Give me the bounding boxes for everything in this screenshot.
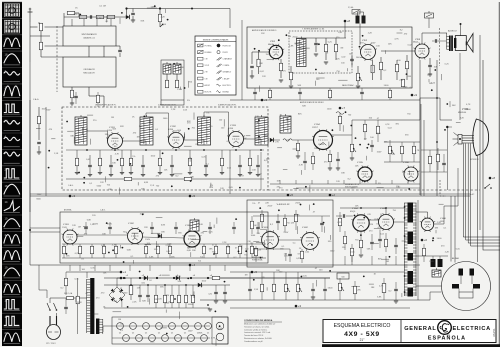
svg-text:6DQ6: 6DQ6 [350, 211, 356, 213]
svg-text:2,2K: 2,2K [171, 109, 176, 111]
svg-text:82K: 82K [209, 187, 213, 189]
svg-text:5%: 5% [81, 259, 84, 261]
sound box hanging capacitor C706 [298, 92, 302, 93]
svg-text:6AQ5: 6AQ5 [413, 41, 419, 44]
capacitor C507 [311, 289, 315, 290]
supply diode D502 [198, 283, 202, 287]
svg-text:18K: 18K [161, 232, 165, 234]
capacitor C703 [350, 59, 354, 60]
IF bypass ground G230 [88, 175, 92, 177]
wire det to amp [292, 139, 313, 141]
svg-text:1M: 1M [137, 137, 140, 139]
IF bias ground G220 [75, 173, 79, 175]
svg-text:V 204: V 204 [314, 124, 320, 126]
svg-text:Tension de linea 220 V.: Tension de linea 220 V. [244, 335, 264, 337]
waveform frame 11 [2, 166, 22, 180]
resistor R5 [39, 23, 42, 31]
resistor R702 [334, 44, 337, 52]
resistor R11 [175, 80, 178, 88]
svg-text:150V: 150V [107, 224, 112, 226]
wire video to CRT 2 [420, 97, 440, 99]
svg-text:A.A.T.: A.A.T. [470, 193, 475, 196]
supply rail B2 [104, 277, 330, 279]
wire antenna to tuner [29, 22, 31, 62]
svg-text:V 403 ECL 82: V 403 ECL 82 [277, 204, 291, 206]
wire volume to grid [381, 50, 415, 52]
svg-text:5%: 5% [206, 113, 209, 115]
IF decoupling resistor R232 [124, 177, 132, 180]
svg-text:56K: 56K [177, 130, 181, 132]
coupling capacitor C708 [435, 39, 436, 43]
video detector can T205 [280, 114, 291, 133]
svg-text:C.A.G.: C.A.G. [33, 98, 39, 101]
svg-text:150V: 150V [145, 239, 150, 241]
svg-text:4,7K: 4,7K [73, 14, 78, 16]
svg-text:1 W: 1 W [205, 59, 208, 61]
svg-text:1M: 1M [103, 6, 106, 8]
node +3 bus [261, 99, 264, 102]
svg-text:1/2 W: 1/2 W [205, 65, 210, 67]
waveform frame 6 [2, 84, 22, 98]
IF bias ground G222 [120, 173, 124, 175]
svg-text:4,7K: 4,7K [115, 153, 120, 155]
waveform frame 1 [2, 2, 22, 17]
video cathode resistor R248 [328, 154, 331, 162]
svg-text:18K: 18K [250, 243, 254, 245]
svg-text:CONDICIONES DE MEDIDA: CONDICIONES DE MEDIDA [244, 319, 273, 322]
waveform photo film strip [2, 2, 22, 346]
bridge diode [119, 289, 123, 293]
svg-text:18K: 18K [341, 173, 345, 175]
resistor R705 [289, 72, 292, 80]
ground C4 [131, 20, 135, 22]
supply node +5 [190, 277, 192, 279]
waveform frame 17 [2, 264, 22, 278]
sync resistor R311 [78, 246, 81, 254]
node +2 horiz [329, 194, 332, 197]
wire sound tube input [252, 51, 269, 53]
svg-text:1,5K: 1,5K [376, 46, 381, 48]
wire horiz internals [278, 239, 302, 241]
video amp tube V204 [312, 129, 334, 151]
waveform frame 8 [2, 117, 22, 131]
capacitor C401 [276, 221, 280, 222]
IF bias resistor R225 [188, 158, 191, 166]
cathode resistor R411 [359, 240, 362, 248]
IF bias resistor R223 [129, 158, 132, 166]
supply resistor R514 [184, 295, 187, 303]
wire top bias row [64, 16, 126, 18]
resistor R710 [405, 61, 408, 69]
coupling cap C406 [343, 214, 344, 218]
supply resistor R512 [170, 295, 173, 303]
svg-text:PUNTO: PUNTO [223, 52, 229, 54]
svg-text:10K: 10K [388, 43, 392, 45]
sound section box [247, 27, 412, 88]
heater circle F6 [182, 323, 189, 330]
sound IF amp tube V701 [268, 44, 284, 60]
tuner coil pair T2 [173, 62, 181, 74]
resistor R406 [300, 251, 303, 259]
svg-text:56K: 56K [452, 105, 456, 107]
svg-text:V 406: V 406 [440, 218, 446, 220]
svg-text:10K: 10K [434, 67, 438, 69]
heater inner box [212, 317, 228, 344]
svg-text:56K: 56K [171, 257, 175, 259]
svg-text:3S151: 3S151 [492, 328, 496, 337]
resistor R247 [412, 146, 415, 154]
video cathode capacitor C241 [336, 159, 340, 160]
svg-text:150V: 150V [188, 331, 193, 333]
svg-text:ESQUEMA ELECTRICO: ESQUEMA ELECTRICO [334, 323, 391, 329]
wire top feed extend [160, 8, 230, 10]
svg-text:SINTONIZADOR: SINTONIZADOR [81, 33, 97, 36]
bottom bus 1 [200, 299, 430, 301]
width box 500 [337, 273, 349, 279]
svg-text:10K: 10K [356, 57, 360, 59]
mains switch [47, 303, 57, 311]
node +1 under sync [120, 277, 123, 280]
svg-text:T. INTERCARRIER 5,5 Mc: T. INTERCARRIER 5,5 Mc [302, 28, 324, 31]
wire V302-V303 [143, 237, 185, 238]
svg-text:18K: 18K [264, 135, 268, 137]
svg-text:1M: 1M [139, 126, 142, 128]
svg-text:56K: 56K [178, 281, 182, 283]
svg-text:ANTENA: ANTENA [64, 209, 72, 212]
wire IF chain 3 [145, 113, 147, 117]
svg-text:1M: 1M [118, 319, 121, 321]
wire supply rail to right [230, 277, 330, 279]
sound box hanging resistor R713 [328, 90, 331, 98]
svg-text:2,2K: 2,2K [437, 222, 442, 224]
supply resistor R515 [191, 295, 194, 303]
wire brightness rail [384, 141, 420, 143]
diode D301 [158, 234, 162, 238]
svg-text:250V: 250V [267, 205, 272, 207]
IF bypass capacitor C232 [141, 165, 145, 166]
svg-text:6,3: 6,3 [171, 333, 173, 335]
sync resistor R313 [102, 246, 105, 254]
supply bottom rail [104, 307, 210, 309]
svg-text:250V: 250V [173, 130, 178, 132]
wire R5 to block [40, 31, 42, 42]
svg-text:500: 500 [341, 276, 344, 278]
svg-text:5%: 5% [376, 224, 379, 226]
dashed box CRT network corner [440, 180, 446, 196]
heater circle F16 [216, 322, 224, 330]
wire mains to transformer [49, 298, 51, 303]
svg-text:18K: 18K [276, 270, 280, 272]
sync resistor R319 [214, 246, 217, 254]
arrow +B top [160, 24, 163, 27]
sync resistor R316 [156, 246, 159, 254]
wire IF output [88, 87, 90, 96]
deflection yoke plug circle [442, 262, 491, 311]
heater circle F17 [216, 333, 224, 341]
tuner link resistor R12 [96, 95, 99, 103]
svg-text:V 402: V 402 [302, 227, 308, 229]
width coil L400 [422, 248, 425, 256]
IF bypass capacitor C233 [170, 165, 174, 166]
svg-text:1,5K: 1,5K [254, 289, 259, 291]
legend row 7 right symbol [217, 84, 221, 86]
yoke coil block 3 [452, 284, 459, 289]
waveform frame 15 [2, 231, 22, 245]
svg-text:2,2K: 2,2K [222, 242, 227, 244]
svg-text:10K: 10K [253, 225, 257, 227]
waveform frame 2 [2, 18, 22, 33]
legend row 3 [198, 57, 204, 60]
wire sound box bottom components [246, 60, 248, 88]
svg-text:1,5K: 1,5K [54, 153, 59, 155]
svg-text:250V: 250V [37, 194, 42, 196]
heater circle F4 [156, 323, 163, 330]
heater circle F8 [205, 323, 212, 330]
IF bypass capacitor C230 [88, 165, 92, 166]
svg-text:PUNTO DE: PUNTO DE [223, 45, 231, 47]
svg-text:82K: 82K [141, 20, 145, 22]
video section lower rail 2 [296, 187, 420, 189]
svg-text:150V: 150V [177, 89, 182, 91]
svg-text:10K: 10K [243, 138, 247, 140]
svg-text:5%: 5% [132, 156, 135, 158]
video peaking L202 [336, 112, 344, 115]
capacitor C704 [428, 65, 432, 66]
node dots horiz [360, 207, 362, 209]
sound box hanging resistor R712 [268, 90, 271, 98]
svg-text:4X9 - 5X9: 4X9 - 5X9 [344, 331, 380, 338]
focus switch [484, 184, 492, 189]
svg-text:V 205: V 205 [357, 162, 363, 164]
yoke coil block 2 [470, 269, 475, 276]
node +1 supply [120, 271, 123, 274]
wire IF chain 5 [203, 112, 205, 117]
svg-text:5%: 5% [252, 203, 255, 205]
svg-text:6,8K: 6,8K [356, 290, 361, 292]
svg-text:250V: 250V [293, 37, 298, 39]
wire damper to boost rail [385, 208, 387, 215]
sync resistor R322 [250, 246, 253, 254]
svg-text:Mediciones con voltimetro 20.0: Mediciones con voltimetro 20.000 o/v [244, 323, 275, 326]
svg-text:5 W: 5 W [205, 78, 208, 80]
svg-text:10K: 10K [240, 143, 244, 145]
svg-text:33K: 33K [384, 142, 388, 144]
svg-text:33K: 33K [368, 177, 372, 179]
svg-text:Condensadores en pF.: Condensadores en pF. [244, 340, 264, 343]
power transformer T500 primary bar [90, 278, 94, 334]
supply node +1 [123, 277, 125, 279]
volume pot R708 [356, 73, 359, 81]
IF bias ground G227 [248, 173, 252, 175]
legend row 1 [198, 44, 204, 48]
IF bias resistor R221 [98, 158, 101, 166]
tuner oscillator-mixer block [63, 57, 116, 87]
vertical wire x242 [241, 20, 243, 100]
bus under sync strip [30, 264, 420, 266]
linearity coil L501 [382, 284, 386, 293]
video B+ node +7 [339, 107, 342, 110]
svg-text:6,8K: 6,8K [289, 46, 294, 48]
output transformer T703 core [449, 36, 453, 52]
wire IF chain 6 [244, 138, 262, 140]
HV top cap wire [427, 212, 429, 218]
discriminator transformer T702 [356, 12, 366, 24]
drop wires horizontal section [344, 256, 346, 265]
svg-text:FUS. 1,6 A: FUS. 1,6 A [64, 292, 73, 295]
sync tube V302 [126, 227, 144, 245]
resistor R3 [96, 15, 104, 18]
wire IF chain 4 [184, 139, 205, 141]
thermistor R501 [76, 296, 79, 304]
capacitor C2 [118, 50, 122, 51]
resistor R701 [324, 44, 327, 52]
svg-text:82K: 82K [302, 105, 306, 107]
IF bias rail dots [86, 149, 88, 151]
wire yoke to flyback [416, 285, 442, 287]
resistor R401 [250, 221, 253, 229]
svg-text:2 AMPLIFICADOR F.I.: 2 AMPLIFICADOR F.I. [158, 104, 177, 107]
sync tube V303 [183, 230, 202, 249]
svg-text:150V: 150V [93, 223, 98, 225]
svg-text:1,5K: 1,5K [218, 328, 223, 330]
output transformer windings [447, 36, 450, 38]
IF bypass ground G234 [204, 175, 208, 177]
IF amp tube V202 [167, 131, 185, 149]
svg-text:6,8K: 6,8K [187, 250, 192, 252]
node +12 [159, 7, 161, 9]
svg-text:82K: 82K [114, 301, 118, 303]
node +6 right [421, 239, 424, 242]
resistor R701b [353, 286, 356, 294]
sync strip lower rail [62, 257, 266, 259]
sync capacitor C310 [84, 227, 88, 228]
IF transformer can T203 [198, 115, 211, 145]
small tube V206 [403, 166, 420, 183]
trimmer TP701 [425, 11, 434, 18]
legend row 6 [198, 77, 204, 80]
vertical wire left bus [38, 22, 40, 24]
supply resistor R511 [163, 295, 166, 303]
svg-text:4,7K: 4,7K [394, 39, 399, 41]
svg-text:Contraste y brillo al minimo.: Contraste y brillo al minimo. [244, 328, 268, 331]
sound box hanging capacitor C705 [253, 92, 257, 93]
legend row 6 right symbol [217, 77, 222, 80]
sound boundary dash line [438, 28, 440, 66]
wire left vertical feed [45, 107, 47, 196]
svg-text:6,8K: 6,8K [377, 297, 382, 299]
svg-text:5%: 5% [283, 71, 286, 73]
damper tube V405 [377, 213, 395, 231]
svg-text:1M: 1M [245, 275, 248, 277]
AGC tube V301 [62, 229, 79, 246]
heater circle F10 [136, 335, 143, 342]
svg-text:33K: 33K [192, 250, 196, 252]
capacitor C403 [288, 254, 292, 255]
supply resistor R513 [177, 295, 180, 303]
title block outer box [323, 320, 496, 343]
IF amp tube V201 [106, 132, 124, 150]
svg-text:ESPAÑOLA: ESPAÑOLA [428, 335, 466, 342]
node +5 mid [189, 195, 192, 198]
sync capacitor C311 [108, 227, 112, 228]
capacitor C240 [370, 145, 374, 146]
CRT picture tube V300 [453, 119, 489, 156]
right bus vertical x420 [419, 60, 421, 195]
waveform frame 5 [2, 68, 22, 82]
resistor R10 [165, 80, 168, 88]
ground audio [428, 74, 432, 76]
svg-text:18K: 18K [102, 234, 106, 236]
node +4 under sync [189, 264, 192, 267]
IF transformer can T204 [255, 115, 268, 145]
svg-text:4,7K: 4,7K [211, 338, 216, 340]
resistor R706 [371, 65, 374, 73]
svg-text:Luminancia nominal. 125 V red.: Luminancia nominal. 125 V red. [244, 331, 271, 334]
svg-text:33K: 33K [187, 248, 191, 250]
supply diode D501 [176, 276, 180, 280]
resistor R709 [395, 64, 398, 72]
bridge diode [119, 297, 123, 301]
svg-text:1,5K: 1,5K [183, 110, 188, 112]
resistor R4 [107, 15, 115, 18]
focus pot R700 [338, 283, 341, 291]
svg-text:10K: 10K [355, 206, 359, 208]
wire video to CRT [378, 119, 420, 121]
svg-text:1ER AMPLIFICADOR F.I.: 1ER AMPLIFICADOR F.I. [95, 104, 117, 107]
svg-text:V 206: V 206 [403, 162, 409, 164]
svg-text:12K: 12K [257, 250, 261, 252]
legend row 4 right symbol [217, 64, 222, 67]
heater circle F12 [162, 335, 169, 342]
intercarrier trimmer C701 [314, 43, 318, 44]
svg-text:150V: 150V [371, 43, 376, 45]
svg-text:6,3: 6,3 [132, 333, 134, 335]
svg-text:33K: 33K [70, 135, 74, 137]
vertical rail x424 [423, 120, 425, 196]
vertical rail x421 [420, 104, 422, 196]
svg-text:12K: 12K [164, 170, 168, 172]
IF transformer can T202 [140, 115, 153, 145]
supply resistor R510 [154, 295, 157, 303]
ground contrast [350, 158, 354, 160]
sync capacitor C314 [208, 227, 212, 228]
yoke coil block 1 [459, 269, 464, 276]
node feed [125, 7, 127, 9]
svg-text:6CB6: 6CB6 [228, 128, 234, 130]
sound intercarrier dashed box T701 [289, 31, 352, 73]
sync resistor R315 [144, 246, 147, 254]
intercarrier coil L701 [297, 37, 307, 67]
svg-text:5%: 5% [298, 253, 301, 255]
vertical osc tube V401 [260, 230, 280, 250]
svg-text:82K: 82K [199, 333, 203, 335]
svg-text:18K: 18K [105, 134, 109, 136]
svg-text:82K: 82K [142, 300, 146, 302]
sync resistor R321 [238, 246, 241, 254]
CRT network resistor R301 [428, 156, 431, 164]
svg-text:150V: 150V [42, 108, 47, 110]
video lower rail drops [279, 180, 281, 184]
video amp plate load R241 [338, 116, 341, 124]
svg-text:12K: 12K [261, 33, 265, 35]
boost cap C405 [394, 245, 398, 246]
ground det [296, 156, 300, 158]
legend row 5 right symbol [217, 70, 222, 73]
legend row 3 right symbol [217, 57, 222, 60]
IF bias ground G225 [188, 173, 192, 175]
svg-text:1M: 1M [396, 186, 399, 188]
svg-text:6,3: 6,3 [184, 333, 186, 335]
